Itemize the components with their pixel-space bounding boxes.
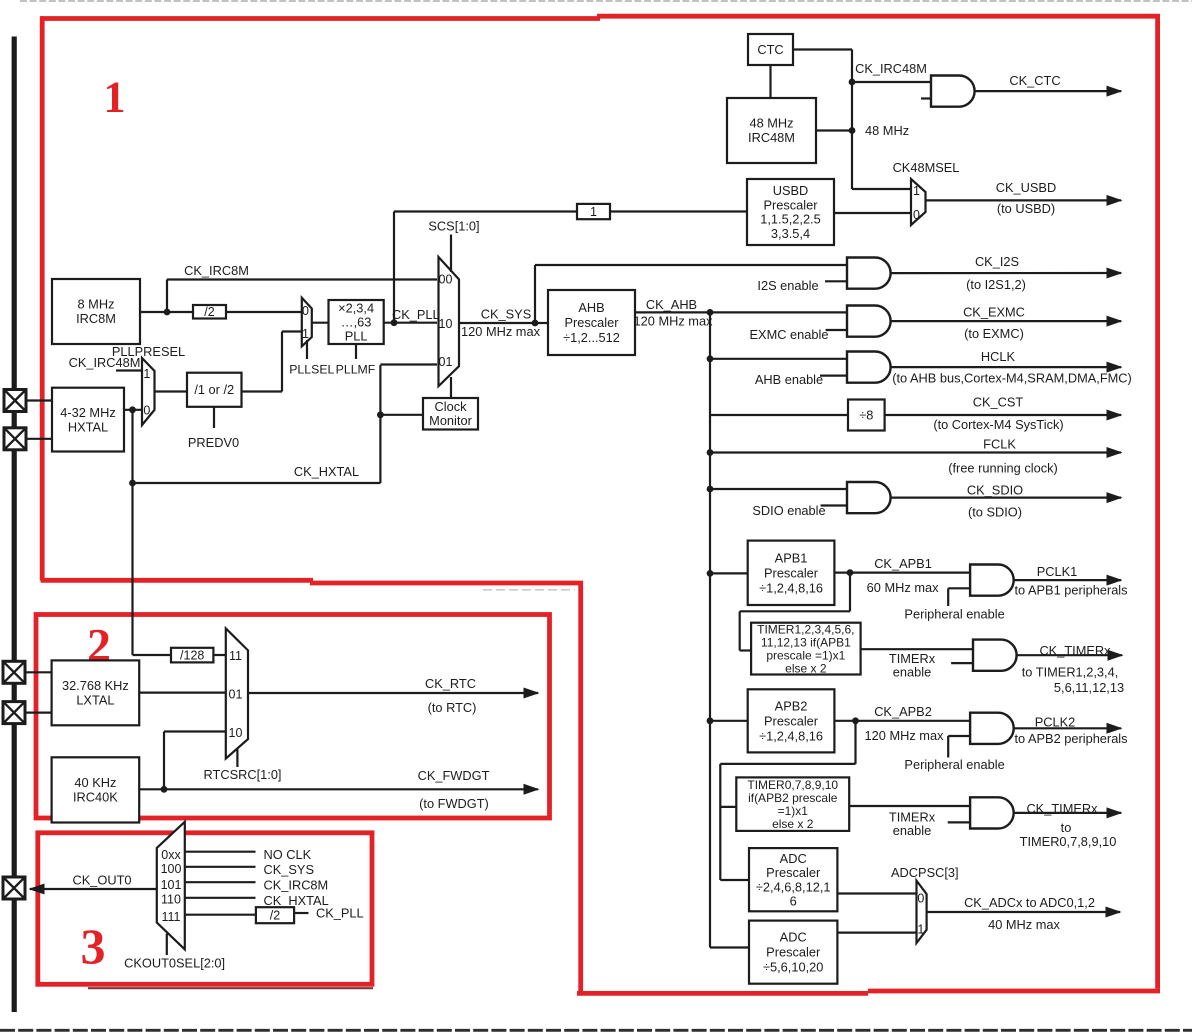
svg-text:if(APB2 prescale: if(APB2 prescale: [748, 791, 838, 805]
svg-text:1: 1: [302, 327, 309, 341]
svg-text:40 KHz: 40 KHz: [74, 775, 116, 790]
svg-text:ADC: ADC: [780, 851, 807, 866]
svg-text:÷1,2,4,8,16: ÷1,2,4,8,16: [759, 728, 823, 743]
svg-text:CK_AHB: CK_AHB: [646, 297, 697, 312]
svg-text:CK_APB1: CK_APB1: [874, 556, 932, 571]
svg-text:1,1.5,2,2.5: 1,1.5,2,2.5: [760, 212, 820, 227]
svg-text:/1 or /2: /1 or /2: [194, 382, 234, 397]
svg-text:CK_HXTAL: CK_HXTAL: [294, 464, 359, 479]
svg-text:CK_PLL: CK_PLL: [316, 906, 364, 921]
svg-text:CK_APB2: CK_APB2: [874, 704, 932, 719]
svg-text:0: 0: [917, 892, 924, 906]
svg-text:CK_SYS: CK_SYS: [264, 862, 315, 877]
svg-text:100: 100: [161, 862, 182, 876]
svg-text:to: to: [1061, 820, 1072, 835]
svg-text:1: 1: [917, 922, 924, 936]
svg-text:48 MHz: 48 MHz: [749, 116, 793, 131]
svg-text:CK_CST: CK_CST: [973, 395, 1024, 410]
svg-text:110: 110: [161, 892, 181, 906]
svg-text:TIMER0,7,8,9,10: TIMER0,7,8,9,10: [747, 778, 838, 792]
svg-text:Peripheral enable: Peripheral enable: [904, 757, 1004, 772]
svg-text:/2: /2: [204, 305, 214, 319]
svg-text:5,6,11,12,13: 5,6,11,12,13: [1054, 680, 1124, 695]
svg-text:32.768 KHz: 32.768 KHz: [62, 678, 129, 693]
svg-text:Prescaler: Prescaler: [764, 713, 819, 728]
svg-text:(to Cortex-M4 SysTick): (to Cortex-M4 SysTick): [933, 417, 1063, 432]
svg-text:USBD: USBD: [773, 183, 809, 198]
svg-text:AHB enable: AHB enable: [755, 372, 823, 387]
svg-text:(to USBD): (to USBD): [997, 201, 1055, 216]
svg-text:PCLK2: PCLK2: [1035, 715, 1076, 730]
svg-text:CK_IRC8M: CK_IRC8M: [184, 263, 249, 278]
svg-text:10: 10: [439, 317, 453, 331]
svg-text:4-32 MHz: 4-32 MHz: [60, 405, 115, 420]
svg-text:10: 10: [229, 726, 243, 740]
svg-text:CK_OUT0: CK_OUT0: [72, 873, 131, 888]
svg-text:120 MHz max: 120 MHz max: [461, 324, 541, 339]
svg-text:HCLK: HCLK: [981, 349, 1016, 364]
svg-text:(free running clock): (free running clock): [948, 461, 1058, 476]
svg-text:SDIO enable: SDIO enable: [752, 503, 825, 518]
svg-text:÷5,6,10,20: ÷5,6,10,20: [763, 960, 823, 975]
svg-text:CK_CTC: CK_CTC: [1009, 73, 1060, 88]
svg-text:prescale =1)x1: prescale =1)x1: [766, 648, 845, 662]
svg-text:01: 01: [229, 688, 243, 702]
svg-text:(to I2S1,2): (to I2S1,2): [966, 277, 1026, 292]
svg-text:(to FWDGT): (to FWDGT): [419, 796, 489, 811]
svg-text:0xx: 0xx: [161, 848, 181, 862]
svg-text:Monitor: Monitor: [429, 413, 472, 428]
svg-text:(to EXMC): (to EXMC): [964, 326, 1024, 341]
svg-text:Prescaler: Prescaler: [766, 865, 821, 880]
svg-text:1: 1: [913, 184, 920, 198]
svg-text:CKOUT0SEL[2:0]: CKOUT0SEL[2:0]: [124, 956, 225, 971]
svg-text:1: 1: [143, 367, 150, 381]
svg-text:11,12,13 if(APB1: 11,12,13 if(APB1: [761, 635, 851, 649]
svg-text:CK48MSEL: CK48MSEL: [893, 160, 960, 175]
svg-text:PLLMF: PLLMF: [336, 363, 376, 377]
svg-text:120 MHz max: 120 MHz max: [634, 314, 714, 329]
svg-text:CK_ADCx to ADC0,1,2: CK_ADCx to ADC0,1,2: [964, 895, 1095, 910]
svg-text:NO CLK: NO CLK: [264, 847, 312, 862]
svg-text:CK_PLL: CK_PLL: [392, 307, 440, 322]
svg-text:enable: enable: [893, 665, 931, 680]
svg-text:/128: /128: [180, 648, 204, 662]
svg-text:CK_RTC: CK_RTC: [425, 676, 476, 691]
svg-text:RTCSRC[1:0]: RTCSRC[1:0]: [204, 767, 282, 782]
svg-text:=1)x1: =1)x1: [778, 804, 809, 818]
svg-text:FCLK: FCLK: [983, 437, 1016, 452]
svg-text:0: 0: [143, 404, 150, 418]
svg-text:APB2: APB2: [775, 698, 808, 713]
svg-text:Prescaler: Prescaler: [564, 315, 619, 330]
svg-text:HXTAL: HXTAL: [68, 419, 108, 434]
svg-text:CK_SDIO: CK_SDIO: [967, 483, 1023, 498]
svg-text:EXMC enable: EXMC enable: [750, 327, 829, 342]
svg-text:CK_TIMERx: CK_TIMERx: [1039, 643, 1111, 658]
svg-text:CK_IRC8M: CK_IRC8M: [264, 877, 329, 892]
svg-text:I2S enable: I2S enable: [757, 278, 818, 293]
svg-text:Peripheral enable: Peripheral enable: [904, 607, 1004, 622]
svg-text:÷1,2,4,8,16: ÷1,2,4,8,16: [759, 580, 823, 595]
svg-text:ADCPSC[3]: ADCPSC[3]: [891, 865, 959, 880]
svg-text:111: 111: [161, 910, 180, 924]
svg-text:AHB: AHB: [578, 300, 604, 315]
svg-text:Clock: Clock: [435, 399, 468, 414]
svg-text:00: 00: [439, 273, 453, 287]
svg-text:0: 0: [913, 208, 920, 222]
svg-text:CK_USBD: CK_USBD: [996, 180, 1056, 195]
svg-text:Prescaler: Prescaler: [764, 565, 819, 580]
svg-text:PLL: PLL: [345, 328, 368, 343]
svg-text:CK_FWDGT: CK_FWDGT: [418, 768, 490, 783]
svg-text:PLLSEL: PLLSEL: [289, 363, 334, 377]
svg-text:to APB2 peripherals: to APB2 peripherals: [1014, 731, 1127, 746]
svg-text:8 MHz: 8 MHz: [78, 297, 115, 312]
svg-text:1: 1: [590, 205, 597, 219]
svg-text:TIMER0,7,8,9,10: TIMER0,7,8,9,10: [1020, 834, 1117, 849]
svg-text:60 MHz max: 60 MHz max: [867, 580, 939, 595]
svg-text:101: 101: [161, 878, 182, 892]
svg-text:LXTAL: LXTAL: [76, 693, 114, 708]
svg-text:CK_TIMERx: CK_TIMERx: [1026, 801, 1098, 816]
svg-text:else x 2: else x 2: [772, 817, 814, 831]
svg-text:/2: /2: [270, 909, 280, 923]
svg-text:48 MHz: 48 MHz: [865, 123, 909, 138]
svg-text:else x 2: else x 2: [785, 661, 827, 675]
svg-text:11: 11: [229, 649, 242, 663]
svg-text:(to SDIO): (to SDIO): [968, 505, 1022, 520]
svg-text:CK_IRC48M: CK_IRC48M: [69, 355, 141, 370]
svg-text:…,63: …,63: [341, 314, 372, 329]
svg-text:×2,3,4: ×2,3,4: [338, 300, 374, 315]
svg-text:CTC: CTC: [757, 42, 783, 57]
svg-text:APB1: APB1: [775, 550, 808, 565]
svg-text:6: 6: [790, 893, 797, 908]
svg-text:IRC48M: IRC48M: [748, 130, 795, 145]
svg-text:3,3.5,4: 3,3.5,4: [771, 226, 810, 241]
svg-text:Prescaler: Prescaler: [766, 945, 821, 960]
svg-text:CK_EXMC: CK_EXMC: [963, 305, 1025, 320]
svg-text:(to AHB bus,Cortex-M4,SRAM,DMA: (to AHB bus,Cortex-M4,SRAM,DMA,FMC): [892, 371, 1132, 386]
svg-text:CK_I2S: CK_I2S: [975, 254, 1019, 269]
svg-text:IRC8M: IRC8M: [76, 311, 116, 326]
svg-text:0: 0: [302, 304, 309, 318]
svg-text:(to RTC): (to RTC): [428, 700, 477, 715]
svg-text:TIMER1,2,3,4,5,6,: TIMER1,2,3,4,5,6,: [757, 622, 854, 636]
svg-text:Prescaler: Prescaler: [763, 197, 818, 212]
svg-text:01: 01: [439, 355, 453, 369]
svg-text:1: 1: [104, 73, 126, 122]
svg-text:40 MHz max: 40 MHz max: [988, 917, 1060, 932]
svg-text:÷8: ÷8: [859, 407, 873, 422]
svg-text:3: 3: [81, 918, 106, 974]
svg-text:CK_IRC48M: CK_IRC48M: [855, 61, 927, 76]
svg-text:PCLK1: PCLK1: [1037, 564, 1078, 579]
svg-text:to APB1 peripherals: to APB1 peripherals: [1014, 583, 1127, 598]
svg-text:ADC: ADC: [780, 930, 807, 945]
svg-text:÷1,2...512: ÷1,2...512: [563, 330, 620, 345]
svg-text:IRC40K: IRC40K: [73, 790, 118, 805]
svg-text:to TIMER1,2,3,4,: to TIMER1,2,3,4,: [1022, 665, 1119, 680]
svg-text:120 MHz max: 120 MHz max: [865, 728, 945, 743]
svg-text:PREDV0: PREDV0: [188, 435, 239, 450]
svg-text:÷2,4,6,8,12,1: ÷2,4,6,8,12,1: [756, 879, 831, 894]
svg-text:enable: enable: [893, 823, 931, 838]
svg-text:CK_SYS: CK_SYS: [481, 307, 532, 322]
svg-text:SCS[1:0]: SCS[1:0]: [428, 219, 479, 234]
